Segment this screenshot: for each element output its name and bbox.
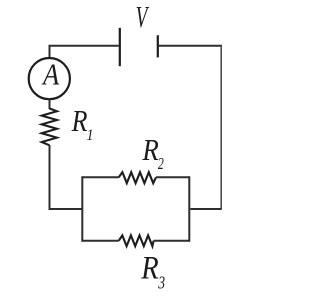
wire from ammeter top up and right to battery left plate [50,46,119,59]
svg-text:R: R [71,105,88,138]
battery V: long left plate [119,28,121,66]
resistor R2 zigzag [119,172,156,183]
resistor R1 zigzag [42,109,57,146]
label R1 [71,105,88,138]
label R3 [140,250,159,286]
svg-text:2: 2 [158,155,164,173]
wire: parallel box right vertical branch [188,176,190,242]
wire from right rail to parallel box right node [190,208,221,210]
svg-text:R: R [141,133,159,167]
label R2 [141,133,159,167]
wire: bottom branch left stub to R3 [82,240,119,242]
svg-text:R: R [140,250,159,286]
label A [41,59,60,92]
svg-text:3: 3 [157,274,165,293]
svg-text:1: 1 [86,128,93,145]
label R3 subscript [157,274,165,293]
svg-text:A: A [41,59,60,92]
wire stub ammeter bottom to R1 [49,99,51,109]
resistor R3 zigzag [119,235,154,246]
battery V: short right plate [157,35,159,57]
label V [136,0,150,34]
wire: bottom branch right stub from R3 [154,240,190,242]
wire: right rail down from corner [220,46,222,209]
wire: top branch right stub from R2 [156,176,189,178]
wire: top branch left stub to R2 [82,176,119,178]
ammeter A circle [29,58,70,99]
wire from battery right plate to top-right corner [159,45,222,47]
wire from R1 bottom down and right to parallel box left node [50,145,83,209]
label R1 subscript [86,128,93,145]
label R2 subscript [158,155,164,173]
svg-text:V: V [136,0,150,34]
wire: parallel box left vertical branch [81,176,83,242]
